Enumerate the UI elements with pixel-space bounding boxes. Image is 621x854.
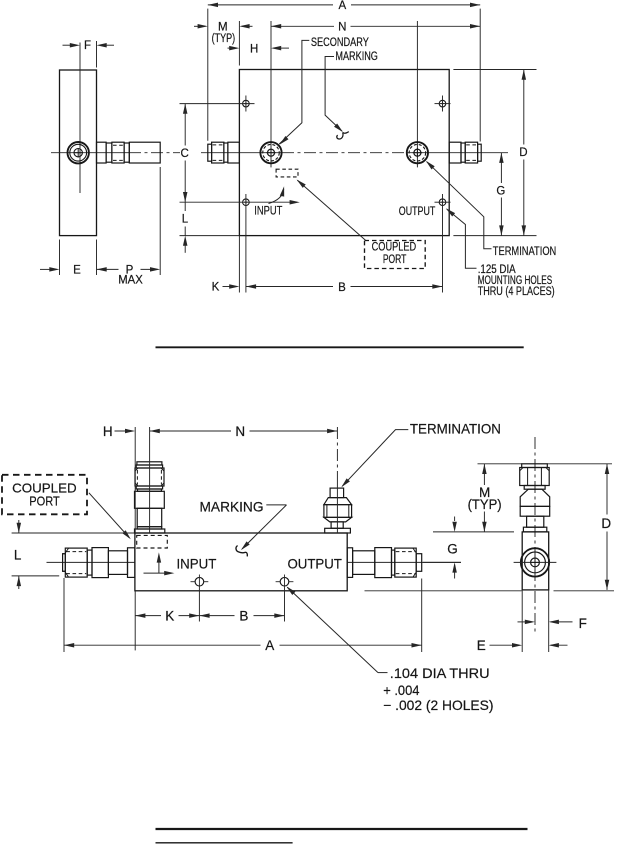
- bottom face hole 1 (front view): [195, 577, 204, 586]
- hole row line bottom-left with INPUT arrow: [180, 201, 297, 203]
- dimension M (TYP) (front view): [482, 464, 487, 474]
- svg-text:F: F: [84, 40, 91, 52]
- svg-text:C: C: [181, 148, 189, 160]
- bottom separator line 2: [156, 842, 293, 844]
- front left connector nut: [65, 548, 87, 577]
- bottom face hole 2 (front view): [280, 577, 289, 586]
- label COUPLED PORT (front view) dashed box: [2, 475, 87, 515]
- mounting hole bottom-left: [243, 199, 250, 206]
- svg-text:OUTPUT: OUTPUT: [288, 556, 343, 572]
- front right connector flange: [347, 548, 352, 578]
- dimension F: [96, 41, 98, 68]
- marking squiggle front view: [236, 546, 247, 557]
- front right connector ring: [392, 550, 395, 575]
- hole center mark lines top-right: [435, 103, 451, 105]
- end view connector cap: [522, 464, 548, 468]
- coupled port hidden rectangle: [276, 169, 298, 177]
- hidden coupled port rect on body: [137, 535, 168, 548]
- hole center mark lines bottom-right: [435, 201, 451, 203]
- left connector flange circle: [260, 142, 281, 163]
- end view centerline dash-dot: [534, 437, 536, 634]
- dimension D (top view): [522, 70, 527, 80]
- top extension line for M and D: [478, 463, 522, 465]
- left SMA connector cap: [208, 144, 212, 161]
- end view connector nut: [520, 468, 550, 486]
- dimension C: [183, 104, 188, 114]
- termination connector (front view): [330, 488, 344, 498]
- dimension K (front view): [134, 591, 136, 651]
- top coupled-port connector (front view): [137, 462, 162, 465]
- bottom separator line 1: [156, 828, 528, 830]
- right SMA connector base: [449, 142, 461, 163]
- front view right connector centerline: [347, 561, 461, 563]
- front left connector tip: [63, 554, 66, 572]
- svg-text:+ .004: + .004: [383, 682, 419, 698]
- svg-text:A: A: [338, 0, 346, 12]
- body top edge extension left: [12, 532, 135, 534]
- marking squiggle top view: [337, 132, 349, 139]
- front left connector flange: [128, 548, 135, 578]
- dimension B (front view): [199, 613, 209, 618]
- svg-text:TERMINATION: TERMINATION: [493, 246, 557, 258]
- plate bottom edge extension right: [453, 235, 536, 237]
- dimension A (top view): [207, 9, 209, 141]
- side view SMA connector ring: [106, 143, 112, 162]
- side view connector center screw: [74, 149, 82, 157]
- right connector centerline vertical: [416, 21, 418, 167]
- dimension L (front view): [17, 523, 22, 533]
- side view connector inner ring: [70, 144, 87, 161]
- body bottom edge extension right: [365, 590, 522, 592]
- mounting hole bottom-right: [439, 199, 446, 206]
- top view plate outline: [239, 70, 449, 236]
- front right connector barrel: [353, 551, 375, 575]
- end view face connector circles: [521, 548, 549, 576]
- dimension K (top view): [238, 236, 240, 293]
- side view mating block: [129, 142, 160, 163]
- svg-text:B: B: [239, 609, 248, 624]
- leader coupled port to body (front view): [89, 493, 130, 538]
- L dim bottom extension: [12, 575, 60, 577]
- svg-text:B: B: [338, 282, 346, 294]
- end view body outline: [522, 532, 549, 590]
- front left connector ring: [87, 550, 92, 575]
- dimension F (front view): [518, 621, 532, 623]
- svg-text:TERMINATION: TERMINATION: [410, 421, 501, 437]
- svg-text:MAX: MAX: [118, 275, 143, 287]
- dimension B (top view): [246, 284, 256, 289]
- label COUPLED PORT top view dashed box: [365, 241, 426, 269]
- dimension A (front view): [63, 578, 65, 652]
- side view SMA connector body: [97, 142, 107, 163]
- front left connector block: [92, 548, 108, 578]
- side view SMA connector nut: [112, 142, 124, 163]
- svg-text:SECONDARY: SECONDARY: [311, 37, 369, 49]
- svg-text:INPUT: INPUT: [254, 206, 282, 218]
- svg-text:MARKING: MARKING: [200, 498, 264, 514]
- hole center mark lines top-left / C extension: [180, 103, 255, 105]
- mounting hole top-left: [243, 100, 250, 107]
- right connector flange circle: [407, 142, 428, 163]
- front view left connector centerline: [47, 561, 135, 563]
- dimension G (top view): [499, 153, 504, 163]
- svg-text:E: E: [73, 264, 81, 276]
- svg-text:N: N: [338, 22, 346, 34]
- svg-text:PORT: PORT: [29, 494, 60, 509]
- termination centerline: [336, 427, 338, 481]
- svg-text:A: A: [265, 638, 274, 653]
- svg-text:K: K: [165, 609, 174, 624]
- right SMA connector nut: [465, 142, 477, 163]
- svg-text:PORT: PORT: [383, 254, 407, 266]
- svg-text:M: M: [218, 22, 228, 34]
- front right connector block: [375, 548, 392, 578]
- svg-text:MARKING: MARKING: [335, 51, 378, 63]
- left SMA connector ring: [224, 143, 228, 162]
- svg-text:(TYP): (TYP): [468, 497, 502, 512]
- end view body edge extensions down: [521, 590, 523, 652]
- svg-text:− .002 (2 HOLES): − .002 (2 HOLES): [383, 697, 493, 713]
- separator line below top view: [156, 346, 524, 348]
- end view connector ring: [524, 486, 545, 490]
- svg-text:L: L: [182, 214, 189, 226]
- side view plate outline: [60, 70, 97, 236]
- side view horizontal centerline: [51, 152, 129, 154]
- front right connector tip: [416, 554, 422, 572]
- svg-text:G: G: [496, 186, 505, 198]
- left SMA connector base: [228, 142, 240, 163]
- dimension L (top view): [184, 202, 186, 211]
- dimension P MAX: [97, 268, 119, 270]
- end view connector flange: [523, 527, 546, 532]
- svg-text:D: D: [601, 516, 611, 531]
- curved arrow to coupled port: [269, 189, 284, 203]
- svg-text:D: D: [519, 147, 527, 159]
- svg-text:E: E: [477, 638, 486, 653]
- dimension H (top view): [228, 47, 238, 49]
- svg-text:.104 DIA THRU: .104 DIA THRU: [390, 665, 490, 681]
- svg-text:G: G: [447, 541, 458, 556]
- front view body outline: [135, 533, 347, 591]
- body top edge extension right / M G base: [433, 531, 514, 533]
- svg-text:(TYP): (TYP): [212, 33, 236, 45]
- right SMA connector ring: [461, 143, 465, 162]
- svg-text:K: K: [212, 282, 220, 294]
- mounting hole top-right: [439, 100, 446, 107]
- dimension H (front view): [134, 427, 136, 533]
- end view connector funnel: [520, 489, 550, 506]
- svg-text:L: L: [14, 548, 22, 563]
- plate top edge extension right: [453, 69, 536, 71]
- dimension E (side view): [59, 240, 61, 276]
- svg-text:N: N: [235, 424, 245, 439]
- right SMA connector cap: [478, 144, 482, 161]
- side view SMA connector ring 2: [124, 143, 129, 162]
- dimension M (TYP) top view: [238, 21, 240, 66]
- dimension G (front view): [452, 522, 457, 532]
- leader .104 DIA THRU: [286, 586, 295, 595]
- top view horizontal centerline: [201, 152, 282, 154]
- svg-text:THRU (4 PLACES): THRU (4 PLACES): [478, 286, 555, 298]
- dimension D (front view): [605, 464, 610, 474]
- dimension N (front view): [150, 429, 160, 434]
- left connector centerline vertical: [270, 21, 272, 167]
- front left connector barrel: [108, 551, 127, 575]
- svg-text:H: H: [250, 43, 258, 55]
- svg-text:COUPLED: COUPLED: [372, 242, 417, 254]
- dimension N (top view): [271, 24, 281, 29]
- front right connector nut: [395, 548, 416, 577]
- svg-text:OUTPUT: OUTPUT: [399, 206, 436, 218]
- plate bottom edge extension left: [180, 235, 240, 237]
- leader coupled port to hidden rect: [297, 180, 365, 240]
- side view vertical centerline: [79, 43, 81, 194]
- left SMA connector nut: [212, 142, 224, 163]
- svg-text:INPUT: INPUT: [177, 556, 217, 572]
- side view connector flange circle: [68, 142, 89, 163]
- end view connector collar: [520, 506, 550, 516]
- svg-text:H: H: [103, 424, 113, 439]
- svg-text:F: F: [579, 616, 587, 631]
- end view connector barrel: [527, 516, 544, 527]
